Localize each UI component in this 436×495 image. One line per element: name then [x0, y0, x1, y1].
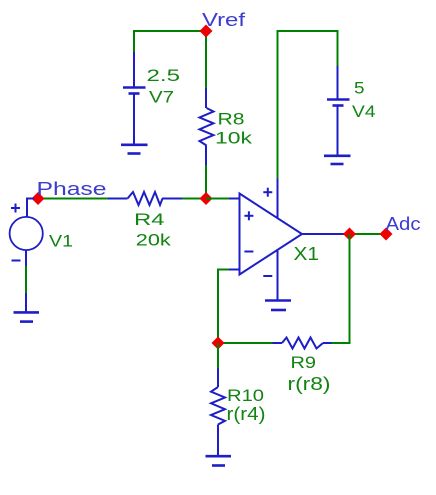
svg-text:r(r4): r(r4) — [227, 403, 266, 424]
svg-text:R8: R8 — [218, 110, 245, 129]
svg-text:V4: V4 — [352, 102, 376, 121]
X1 triangle body — [240, 194, 303, 275]
svg-text:V7: V7 — [149, 88, 174, 107]
node feedback junction — [212, 337, 225, 350]
X1 inverting input pin — [229, 269, 240, 271]
wire junction to op-amp noninverting input — [206, 198, 230, 200]
wire Vref top horizontal — [134, 30, 206, 32]
wire Vref down to R8 — [205, 31, 207, 89]
svg-text:X1: X1 — [294, 244, 320, 264]
svg-text:Adc: Adc — [386, 214, 421, 234]
svg-text:20k: 20k — [136, 231, 172, 250]
wire R8 to junction node — [205, 165, 207, 199]
resistor R10 — [211, 368, 225, 456]
node Phase — [32, 192, 45, 205]
svg-text:Phase: Phase — [37, 179, 107, 199]
ground below R10 — [206, 456, 232, 465]
X1 negative supply marker — [263, 275, 272, 277]
svg-text:R9: R9 — [291, 353, 317, 372]
svg-text:Vref: Vref — [202, 10, 246, 30]
wire Phase to R4 — [38, 198, 109, 200]
X1 negative supply pin — [277, 250, 279, 300]
wire supply rail horizontal — [278, 30, 338, 32]
svg-text:5: 5 — [354, 79, 365, 98]
X1 noninverting input pin — [229, 198, 240, 200]
svg-text:10k: 10k — [215, 129, 253, 148]
resistor R8 — [200, 88, 214, 166]
voltage source V1 — [10, 199, 43, 268]
ground below V1 — [14, 293, 40, 322]
svg-text:V1: V1 — [49, 231, 73, 250]
wire op-amp output to Adc — [345, 233, 386, 235]
node output junction — [343, 228, 356, 241]
X1 output pin — [301, 233, 346, 235]
ground below V7 — [121, 145, 148, 154]
wire feedback node to inverting input — [218, 270, 229, 344]
node Adc — [380, 228, 393, 241]
wire feedback node to R10 — [217, 343, 219, 369]
voltage source V7 — [123, 52, 146, 144]
wire output down to feedback — [349, 234, 351, 343]
wire supply rail down to V4 — [337, 30, 339, 67]
resistor R9 — [272, 338, 332, 349]
wire R4 to junction node — [182, 198, 206, 200]
svg-text:2.5: 2.5 — [147, 66, 181, 85]
wire V1 to ground — [25, 266, 27, 294]
X1 inverting input marker — [244, 251, 253, 253]
wire Vref down to V7 — [133, 30, 135, 53]
wire feedback bottom right — [331, 342, 351, 344]
X1 noninverting input marker — [244, 211, 253, 220]
svg-text:r(r8): r(r8) — [288, 373, 331, 394]
ground below op-amp — [265, 301, 291, 311]
voltage source V4 — [327, 66, 350, 155]
ground below V4 — [324, 156, 351, 164]
op-amp X1 — [229, 178, 346, 300]
node Vref junction — [200, 25, 213, 38]
wire feedback node to R9 — [218, 342, 273, 344]
svg-text:R4: R4 — [134, 210, 165, 229]
resistor R4 — [108, 192, 183, 205]
X1 positive supply pin — [277, 178, 279, 218]
node R4/R8/op-amp junction — [200, 192, 213, 205]
X1 positive supply marker — [263, 188, 272, 197]
wire supply rail down to op-amp — [277, 30, 279, 179]
